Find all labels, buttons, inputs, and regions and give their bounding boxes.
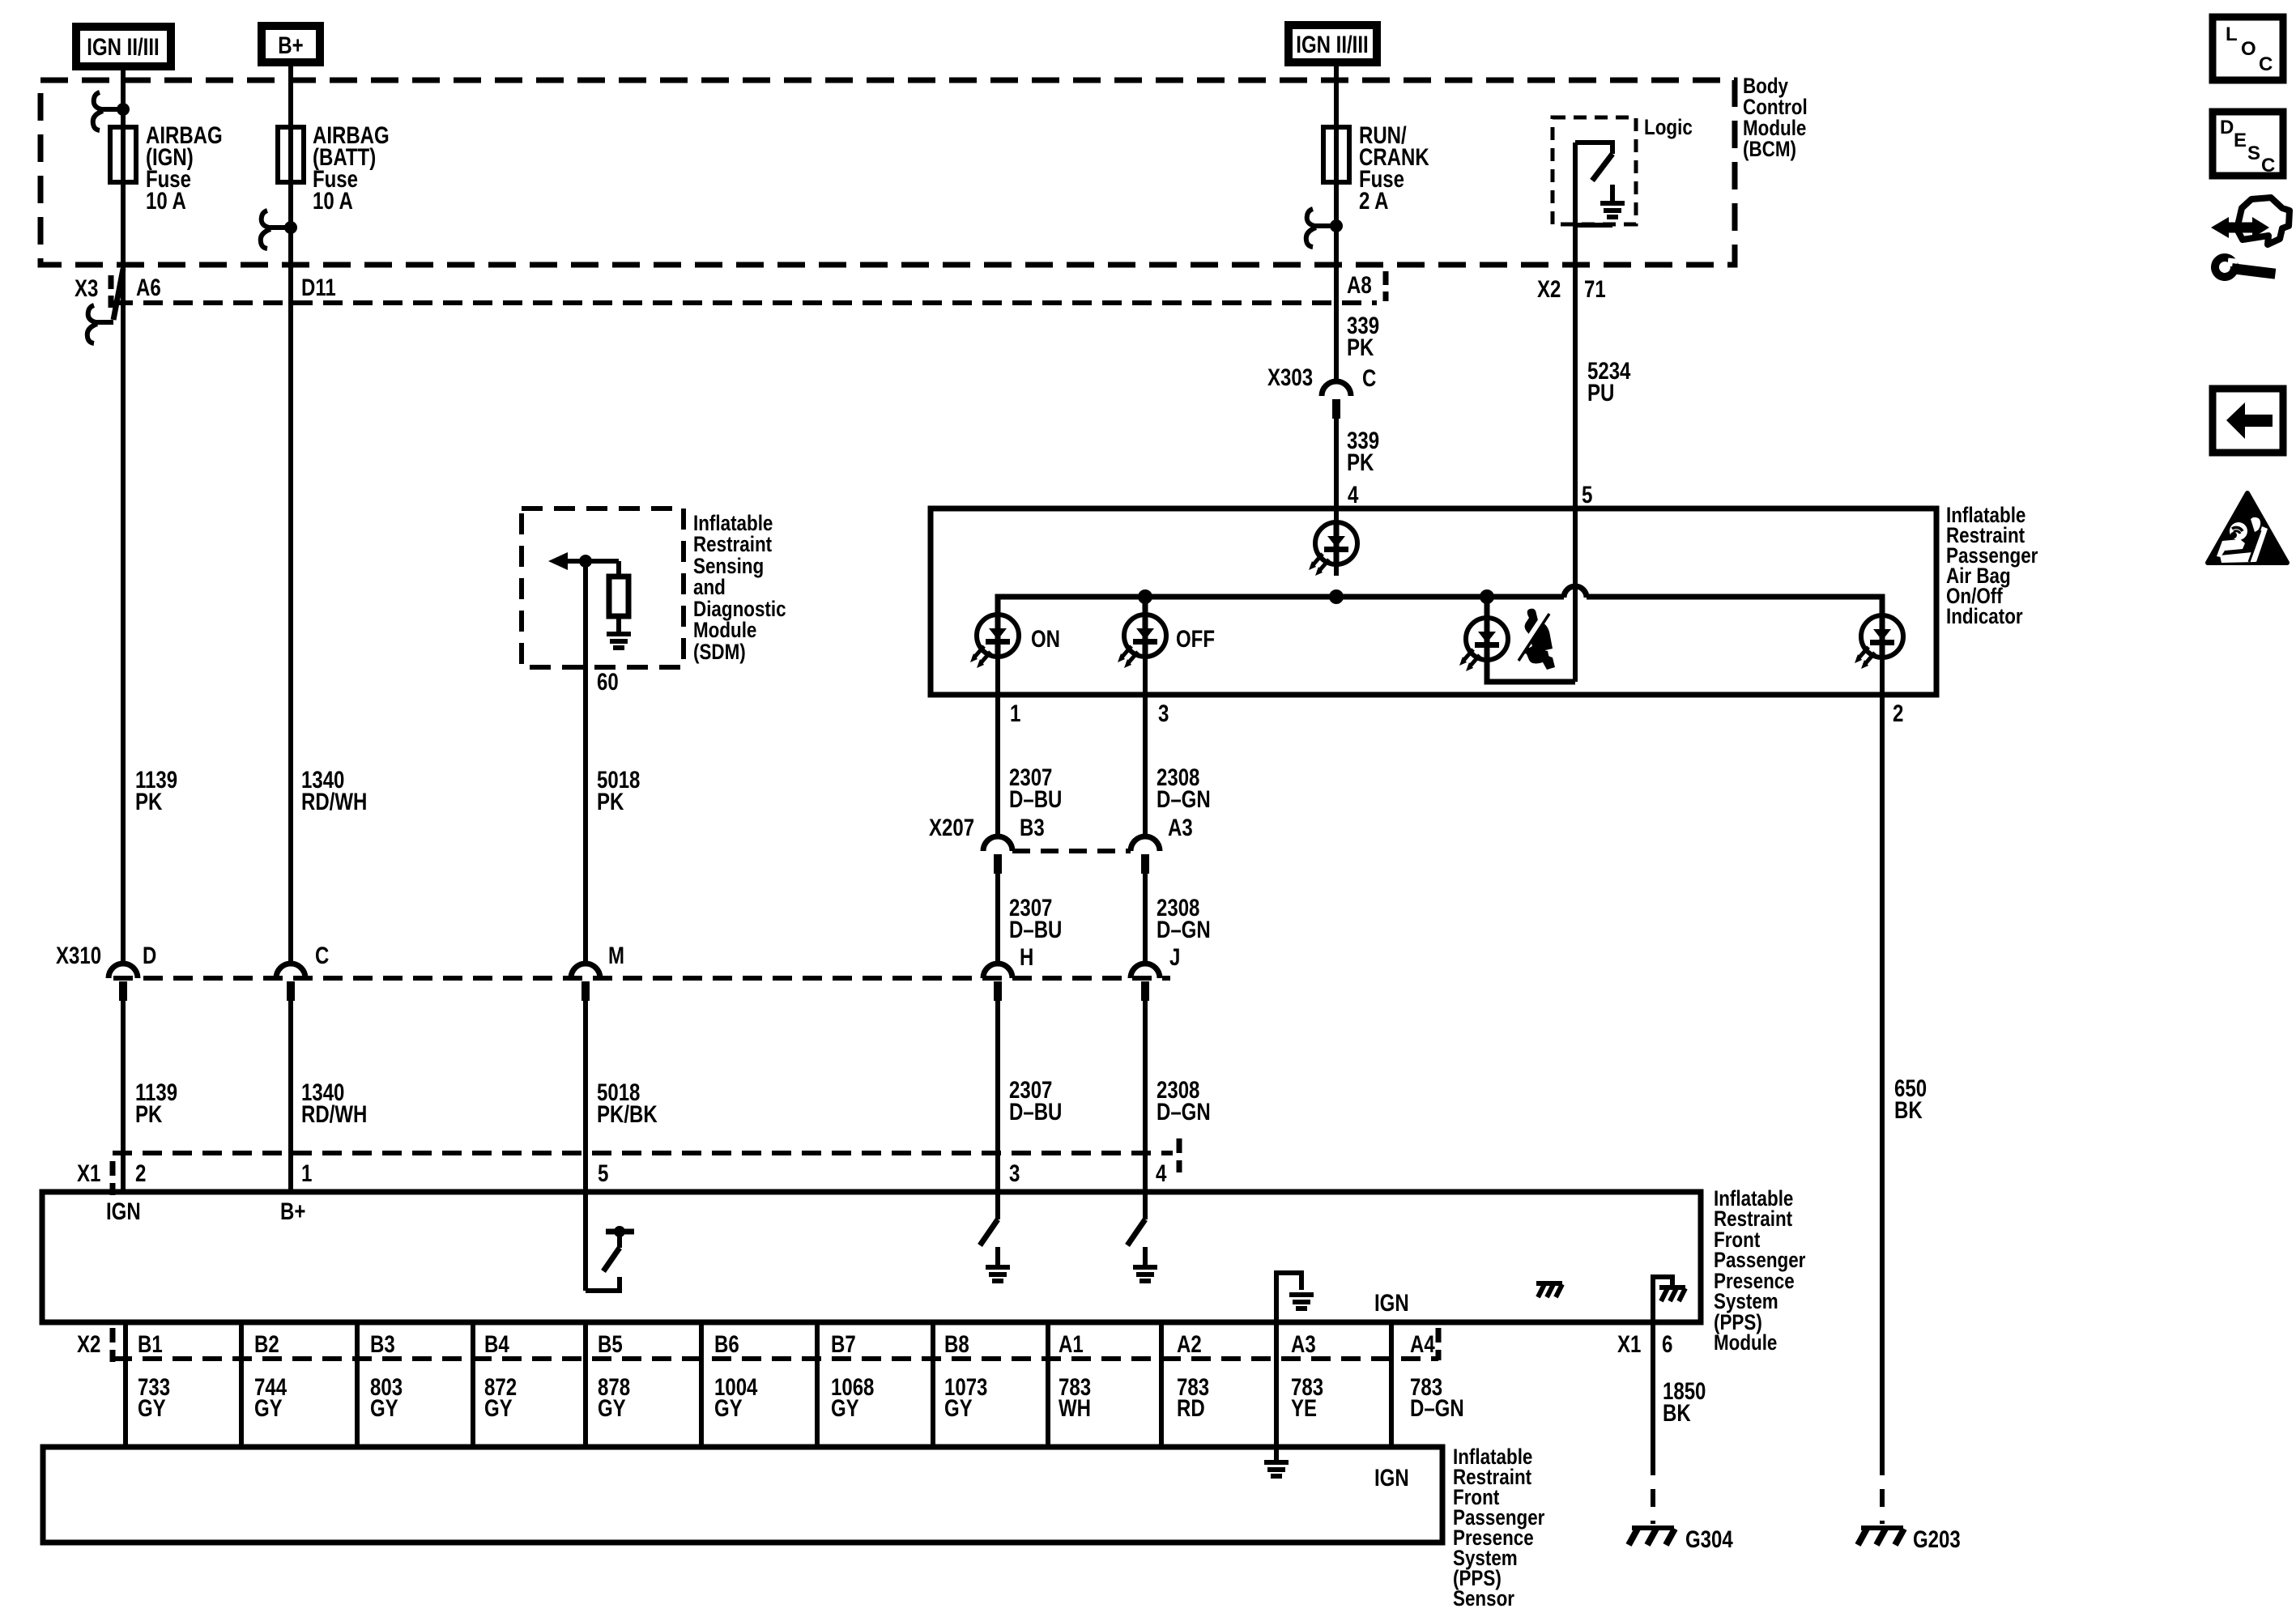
tick A8	[1383, 271, 1389, 301]
wire B4	[471, 1322, 475, 1447]
svg-text:G203: G203	[1913, 1526, 1961, 1553]
connector X310 terminal M	[571, 964, 600, 1001]
svg-text:B6: B6	[714, 1331, 739, 1358]
label: Body Control Module (BCM)	[1743, 74, 1808, 161]
svg-text:B7: B7	[831, 1331, 856, 1358]
svg-text:PU: PU	[1587, 380, 1614, 406]
svg-text:71: 71	[1584, 276, 1606, 303]
svg-text:Sensor: Sensor	[1453, 1586, 1514, 1611]
svg-text:GY: GY	[484, 1395, 513, 1422]
svg-text:C: C	[2261, 155, 2275, 177]
svg-text:3: 3	[1158, 700, 1169, 727]
wire label 744 GY	[254, 1374, 287, 1422]
svg-text:6: 6	[1662, 1331, 1672, 1358]
svg-text:10 A: 10 A	[313, 188, 353, 215]
fuse: RUN/CRANK Fuse 2 A	[1323, 122, 1429, 215]
svg-text:PK: PK	[1347, 449, 1374, 476]
seat belt icon	[1515, 609, 1555, 670]
svg-text:D11: D11	[301, 274, 336, 301]
wire A3	[1274, 1322, 1279, 1447]
module box: Inflatable Restraint Passenger Air Bag On/Off Indicator	[931, 509, 1936, 695]
svg-text:GY: GY	[370, 1395, 398, 1422]
svg-text:S: S	[2247, 143, 2260, 164]
power feed box B+	[262, 26, 320, 62]
svg-text:PK: PK	[135, 1101, 163, 1128]
svg-text:C: C	[2259, 53, 2273, 75]
wire label 1068 GY	[831, 1374, 874, 1422]
wire: IGN II/III feed, circuit 1139 PK (left), x=152	[121, 70, 126, 964]
svg-text:M: M	[608, 943, 624, 969]
svg-text:GY: GY	[944, 1395, 973, 1422]
svg-text:IGN II/III: IGN II/III	[1296, 32, 1368, 58]
module box: Body Control Module (BCM), dashed	[40, 80, 1735, 265]
svg-text:A4: A4	[1410, 1331, 1435, 1358]
fuse: AIRBAG (BATT) Fuse 10 A	[278, 122, 390, 215]
svg-text:B8: B8	[944, 1331, 969, 1358]
svg-text:A6: A6	[136, 274, 161, 301]
svg-text:PK/BK: PK/BK	[597, 1101, 658, 1128]
svg-text:IGN: IGN	[1374, 1465, 1409, 1491]
wire: SDM circuit 5018 PK / PK-BK, x=723	[583, 561, 588, 964]
node: bus junction at OFF	[1138, 589, 1152, 604]
svg-text:PK: PK	[597, 789, 624, 815]
wire A4	[1389, 1322, 1394, 1447]
svg-text:D–BU: D–BU	[1009, 917, 1062, 943]
wire label 5018 PK	[597, 767, 640, 815]
resistor (SDM pull-up)	[609, 561, 628, 632]
svg-text:X310: X310	[56, 943, 101, 969]
svg-text:B+: B+	[280, 1198, 305, 1225]
LED: right lamp (dimming)	[1855, 597, 1903, 669]
svg-text:X2: X2	[1537, 276, 1561, 303]
svg-text:WH: WH	[1059, 1395, 1091, 1422]
wire label 1139 PK (lower)	[135, 1079, 177, 1128]
wire label 1139 PK (upper)	[135, 767, 177, 815]
svg-text:IGN II/III: IGN II/III	[87, 34, 159, 61]
wire B2	[239, 1322, 244, 1447]
svg-text:PK: PK	[135, 789, 163, 815]
tick X1	[110, 1161, 116, 1195]
wire: BCM logic circuit 5234 PU, x=1945	[1573, 143, 1578, 682]
connector row X1 dashed line	[113, 1151, 1173, 1155]
svg-text:GY: GY	[254, 1395, 283, 1422]
power feed box IGN II/III (center)	[1289, 25, 1377, 62]
svg-text:Restraint: Restraint	[693, 532, 772, 556]
ground (module pin A3 internal)	[1276, 1273, 1314, 1322]
svg-text:GY: GY	[831, 1395, 859, 1422]
wire label 5234 PU	[1587, 358, 1631, 406]
wire: RUN/CRANK circuit 339 PK, x=1650	[1334, 66, 1339, 382]
wire label 2308 D-GN (below X207)	[1157, 895, 1211, 943]
power feed box IGN II/III (left)	[76, 27, 171, 66]
svg-text:C: C	[1362, 365, 1376, 392]
connector X207 terminal B3	[983, 836, 1012, 874]
svg-text:and: and	[693, 575, 726, 599]
chassis ground (module pin 6 internal)	[1653, 1277, 1685, 1322]
current path hook below RUN/CRANK fuse	[1306, 209, 1343, 247]
svg-text:3: 3	[1009, 1160, 1020, 1187]
SDM internal arrow to further circuit	[548, 552, 619, 570]
svg-text:D–BU: D–BU	[1009, 786, 1062, 813]
svg-text:PK: PK	[1347, 334, 1374, 361]
module box: Inflatable Restraint Sensing and Diagnostic Module (SDM), dashed	[522, 509, 684, 667]
wire label 783 D-GN	[1410, 1374, 1464, 1422]
ground (sensor A3 internal)	[1264, 1447, 1289, 1479]
wire label 1340 RD/WH (lower)	[301, 1079, 367, 1128]
connector X303 terminal C	[1322, 381, 1351, 419]
tick X2	[110, 1328, 116, 1362]
wire label 1850 BK	[1663, 1378, 1706, 1427]
svg-text:60: 60	[597, 669, 619, 696]
svg-text:IGN: IGN	[106, 1198, 141, 1225]
connector X310 terminal J	[1131, 964, 1160, 1001]
svg-text:B1: B1	[138, 1331, 163, 1358]
LED: indicator illumination lamp (top)	[1309, 521, 1357, 576]
chassis ground (module internal floating)	[1536, 1283, 1562, 1297]
wire label 1073 GY	[944, 1374, 987, 1422]
wire B8	[931, 1322, 935, 1447]
svg-text:B4: B4	[484, 1331, 509, 1358]
wire: indicator ground circuit 650 BK, x=2324	[1880, 657, 1885, 1457]
switch to ground (pin 3)	[980, 1219, 1010, 1283]
svg-text:A8: A8	[1347, 272, 1372, 299]
wire label 1340 RD/WH (upper)	[301, 767, 367, 815]
svg-text:A2: A2	[1177, 1331, 1202, 1358]
wire label 2307 D-BU (above X207)	[1009, 764, 1062, 813]
module box: Inflatable Restraint Front Passenger Presence System (PPS) Sensor	[43, 1447, 1442, 1543]
svg-text:ON: ON	[1031, 626, 1060, 653]
svg-text:X1: X1	[77, 1160, 100, 1187]
connector row X207 dashed link	[1012, 849, 1131, 853]
ground (logic internal)	[1600, 185, 1625, 219]
svg-text:C: C	[315, 943, 329, 969]
svg-text:X303: X303	[1267, 364, 1313, 391]
svg-text:X2: X2	[77, 1331, 100, 1358]
svg-text:4: 4	[1156, 1160, 1167, 1187]
svg-text:RD/WH: RD/WH	[301, 789, 367, 815]
PPS internal sense switch (pin 5)	[586, 1226, 634, 1291]
svg-text:D–GN: D–GN	[1157, 1099, 1211, 1126]
connector X310 terminal C	[276, 964, 305, 1001]
wire B1	[123, 1322, 128, 1447]
wire label 803 GY	[370, 1374, 403, 1422]
connector X310 terminal H	[983, 964, 1012, 1001]
connector row line X3	[113, 300, 1377, 305]
wire label 2307 D-BU (lower)	[1009, 1077, 1062, 1126]
ground G203	[1858, 1526, 1961, 1553]
wire: belt lamp cathode to pin 5	[1487, 660, 1575, 682]
svg-text:A3: A3	[1291, 1331, 1316, 1358]
wire B7	[815, 1322, 820, 1447]
wire label 783 YE	[1291, 1374, 1323, 1422]
icon: DESC box	[2213, 112, 2283, 177]
svg-text:GY: GY	[598, 1395, 626, 1422]
svg-text:E: E	[2234, 130, 2247, 151]
svg-text:D–GN: D–GN	[1157, 917, 1211, 943]
svg-text:O: O	[2241, 38, 2256, 60]
svg-text:2: 2	[1893, 700, 1903, 727]
svg-text:2 A: 2 A	[1359, 188, 1389, 215]
wire label 733 GY	[138, 1374, 170, 1422]
svg-text:4: 4	[1348, 482, 1359, 509]
svg-text:(BCM): (BCM)	[1743, 137, 1796, 161]
wire label 783 WH	[1059, 1374, 1091, 1422]
tick X3	[109, 275, 114, 308]
connector row X310 dashed line	[113, 976, 1170, 981]
svg-text:BK: BK	[1894, 1097, 1923, 1124]
svg-text:G304: G304	[1685, 1526, 1733, 1553]
ground (SDM internal)	[607, 632, 631, 650]
label: SDM description	[693, 511, 786, 664]
wire: indicator ON circuit 2307 D-BU, x=1232	[995, 657, 1000, 836]
wire: PPS module ground circuit 1850 BK, x=2041	[1651, 1322, 1655, 1457]
logic driver switch	[1575, 143, 1612, 225]
LED: ON lamp	[970, 614, 1019, 668]
svg-text:5: 5	[1582, 482, 1592, 509]
svg-text:X207: X207	[929, 815, 974, 841]
label: indicator description	[1946, 503, 2038, 628]
connector row X2 dashed line	[113, 1356, 1438, 1361]
wire A1	[1046, 1322, 1050, 1447]
node: SDM output junction	[579, 555, 592, 568]
svg-text:GY: GY	[138, 1395, 166, 1422]
svg-text:X3: X3	[75, 275, 98, 302]
switch to ground (pin 4)	[1127, 1219, 1157, 1283]
wire: indicator OFF circuit 2308 D-GN, x=1414	[1143, 657, 1148, 836]
label: PPS sensor description	[1453, 1445, 1545, 1611]
connector X310 terminal D	[109, 964, 138, 1001]
fuse: AIRBAG (IGN) Fuse 10 A	[110, 122, 223, 215]
svg-text:A1: A1	[1059, 1331, 1084, 1358]
svg-text:D–BU: D–BU	[1009, 1099, 1062, 1126]
svg-text:D–GN: D–GN	[1410, 1395, 1464, 1422]
tick pin4 right	[1177, 1138, 1182, 1172]
wire label 2307 D-BU (below X207)	[1009, 895, 1062, 943]
wire label 650 BK	[1894, 1075, 1927, 1124]
svg-text:X1: X1	[1617, 1331, 1641, 1358]
wire label 878 GY	[598, 1374, 630, 1422]
wire label 1004 GY	[714, 1374, 758, 1422]
svg-text:IGN: IGN	[1374, 1290, 1409, 1317]
svg-text:Logic: Logic	[1644, 115, 1693, 139]
module section: Logic (dashed)	[1553, 117, 1636, 224]
svg-text:1: 1	[1010, 700, 1020, 727]
module box: Inflatable Restraint Front Passenger Presence System (PPS) Module	[42, 1192, 1701, 1322]
wire label 339 PK (above X303)	[1347, 313, 1379, 361]
node: bus junction at belt lamp	[1480, 589, 1494, 604]
wire label 5018 PK/BK	[597, 1079, 658, 1128]
svg-text:B3: B3	[1020, 815, 1045, 841]
icon: back arrow box	[2213, 389, 2283, 453]
wire label 872 GY	[484, 1374, 517, 1422]
svg-text:RD: RD	[1177, 1395, 1205, 1422]
svg-text:(SDM): (SDM)	[693, 640, 746, 664]
wire B5	[583, 1322, 588, 1447]
wire: B+ feed, circuit 1340 RD/WH, x=359	[288, 66, 293, 964]
svg-text:10 A: 10 A	[146, 188, 186, 215]
wire label 783 RD	[1177, 1374, 1209, 1422]
svg-text:A3: A3	[1168, 815, 1193, 841]
wire label 2308 D-GN (lower)	[1157, 1077, 1211, 1126]
svg-text:D: D	[2220, 117, 2234, 138]
icon: airbag warning triangle	[2208, 493, 2287, 563]
svg-text:B2: B2	[254, 1331, 279, 1358]
svg-text:B5: B5	[598, 1331, 623, 1358]
wire hop: circuit 5234 crossing bus	[1564, 586, 1587, 598]
icon: LOC box	[2213, 17, 2283, 80]
svg-text:L: L	[2226, 23, 2238, 45]
wire B3	[355, 1322, 360, 1447]
svg-text:B+: B+	[278, 32, 303, 59]
svg-text:D–GN: D–GN	[1157, 786, 1211, 813]
svg-text:1: 1	[301, 1160, 312, 1187]
svg-text:5: 5	[598, 1160, 608, 1187]
current path hook below BATT fuse	[261, 211, 297, 249]
svg-text:Indicator: Indicator	[1946, 604, 2023, 628]
svg-text:BK: BK	[1663, 1400, 1691, 1427]
wire label 339 PK (below X303)	[1347, 428, 1379, 476]
tick A4 right	[1436, 1328, 1442, 1360]
LED: seat belt lamp	[1459, 597, 1508, 671]
pin labels row	[138, 1331, 1435, 1358]
ground G304	[1629, 1526, 1733, 1553]
connector X207 terminal A3	[1131, 836, 1160, 874]
svg-text:OFF: OFF	[1176, 626, 1215, 653]
svg-text:2: 2	[135, 1160, 146, 1187]
svg-text:Module: Module	[1714, 1330, 1777, 1355]
current path hook at IGN feed	[93, 92, 130, 130]
icon: repair/connector end view (arrow + wrench)	[2211, 198, 2290, 283]
node: bus junction at lamp feed	[1329, 589, 1344, 604]
svg-text:RD/WH: RD/WH	[301, 1101, 367, 1128]
wire label 2308 D-GN (above X207)	[1157, 764, 1211, 813]
svg-text:GY: GY	[714, 1395, 743, 1422]
svg-text:J: J	[1169, 944, 1180, 971]
svg-text:YE: YE	[1291, 1395, 1317, 1422]
label: PPS module description	[1714, 1186, 1806, 1355]
svg-text:D: D	[143, 943, 156, 969]
LED: OFF lamp	[1118, 597, 1166, 668]
wire B6	[699, 1322, 704, 1447]
wire A2	[1159, 1322, 1164, 1447]
svg-text:Module: Module	[693, 618, 756, 642]
svg-text:H: H	[1020, 944, 1033, 971]
wire jog + hook at X3/A6	[87, 269, 123, 343]
indicator internal bus	[998, 597, 1564, 615]
svg-text:B3: B3	[370, 1331, 395, 1358]
